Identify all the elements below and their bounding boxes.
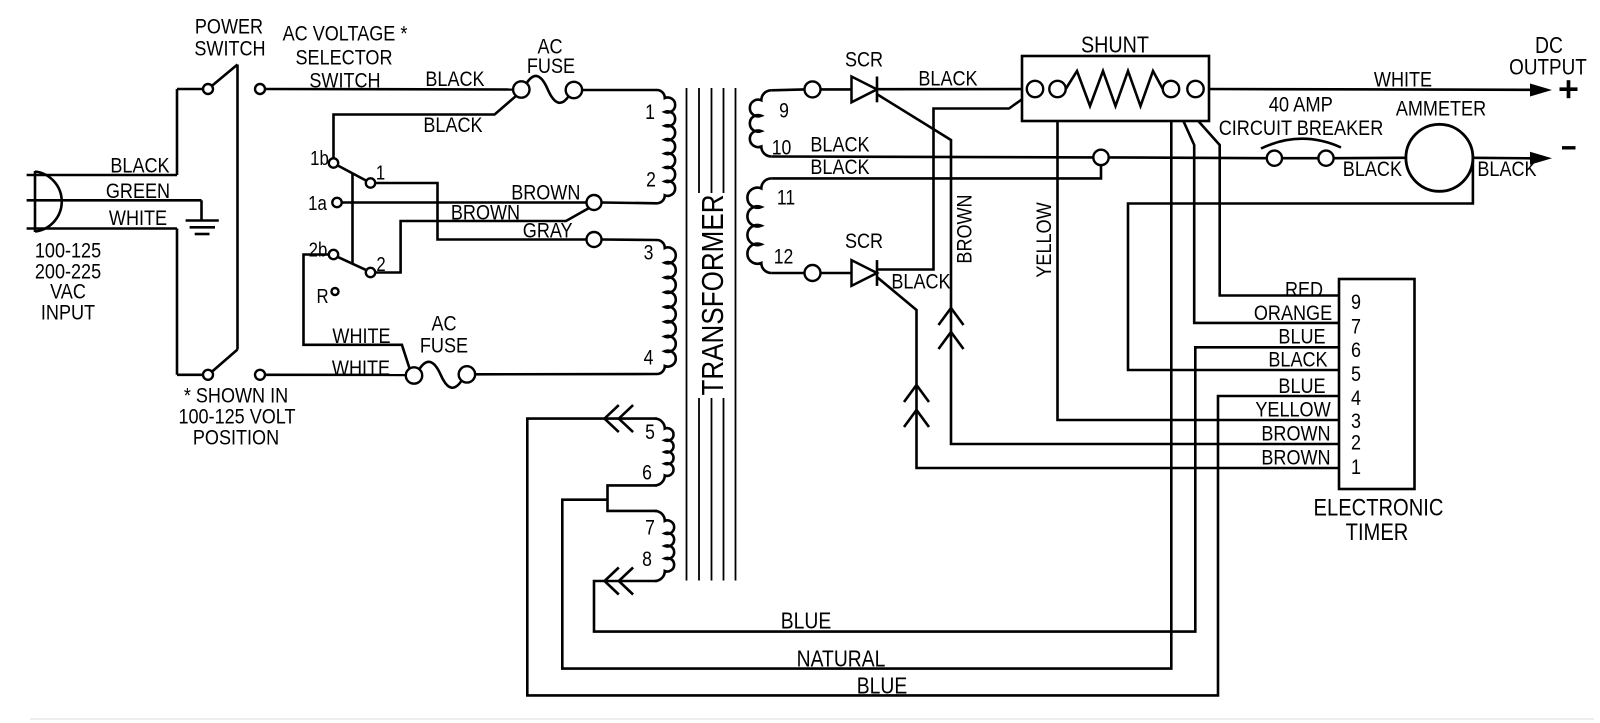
svg-text:6: 6 [1351,338,1361,362]
svg-text:WHITE: WHITE [332,356,390,380]
svg-text:POSITION: POSITION [193,426,279,450]
svg-text:ELECTRONIC: ELECTRONIC [1314,495,1444,522]
svg-text:POWER: POWER [195,15,263,39]
svg-text:40 AMP: 40 AMP [1269,93,1333,117]
svg-text:AMMETER: AMMETER [1396,97,1486,121]
svg-text:TRANSFORMER: TRANSFORMER [695,194,730,395]
svg-text:BROWN: BROWN [1261,422,1330,446]
svg-text:BLACK: BLACK [110,154,170,178]
svg-text:BROWN: BROWN [1261,446,1330,470]
svg-text:WHITE: WHITE [332,324,390,348]
svg-text:SCR: SCR [845,229,883,253]
svg-text:BLUE: BLUE [781,608,832,634]
svg-text:GREEN: GREEN [106,179,170,203]
svg-text:12: 12 [774,246,794,269]
svg-text:OUTPUT: OUTPUT [1509,55,1587,80]
svg-text:BLACK: BLACK [810,155,870,179]
svg-text:R: R [316,286,328,308]
svg-text:SWITCH: SWITCH [309,69,380,93]
svg-text:AC VOLTAGE *: AC VOLTAGE * [283,22,408,46]
svg-text:RED: RED [1285,278,1323,302]
svg-text:1: 1 [1351,455,1361,479]
svg-text:SWITCH: SWITCH [194,37,265,61]
svg-text:BLUE: BLUE [857,673,908,699]
svg-text:ORANGE: ORANGE [1254,301,1332,325]
svg-text:5: 5 [1351,362,1361,386]
svg-text:BROWN: BROWN [511,181,580,205]
svg-text:FUSE: FUSE [420,334,468,358]
svg-text:YELLOW: YELLOW [1032,202,1056,278]
svg-text:11: 11 [777,187,795,210]
svg-text:2b: 2b [309,240,328,262]
svg-text:2: 2 [376,254,385,276]
svg-text:WHITE: WHITE [1374,68,1432,92]
svg-text:SCR: SCR [845,48,883,72]
svg-text:9: 9 [1351,290,1361,314]
svg-text:BROWN: BROWN [953,194,977,263]
svg-text:AC: AC [431,312,456,336]
svg-text:10: 10 [772,137,792,160]
svg-text:BROWN: BROWN [451,201,520,225]
svg-text:BLACK: BLACK [1477,157,1537,181]
svg-text:BLACK: BLACK [423,113,483,137]
svg-text:WHITE: WHITE [109,206,167,230]
svg-text:2: 2 [646,169,656,192]
svg-text:4: 4 [644,347,654,370]
svg-text:BLACK: BLACK [425,67,485,91]
svg-text:GRAY: GRAY [523,219,573,243]
svg-text:SELECTOR: SELECTOR [296,46,393,70]
svg-text:8: 8 [642,548,652,571]
svg-text:5: 5 [645,421,655,444]
svg-text:BLACK: BLACK [918,67,978,91]
svg-text:TIMER: TIMER [1346,519,1409,546]
svg-text:SHUNT: SHUNT [1081,31,1149,57]
svg-text:BLACK: BLACK [1343,157,1403,181]
svg-text:BLACK: BLACK [891,270,951,294]
svg-text:BLACK: BLACK [1268,348,1328,372]
svg-text:4: 4 [1351,386,1361,410]
svg-text:1a: 1a [308,193,327,215]
svg-text:BLUE: BLUE [1278,374,1325,398]
svg-text:1: 1 [645,101,655,124]
svg-text:1: 1 [376,163,385,185]
svg-text:6: 6 [642,462,652,485]
svg-text:INPUT: INPUT [41,301,95,325]
svg-text:7: 7 [1351,315,1361,339]
svg-text:FUSE: FUSE [527,54,575,78]
svg-text:2: 2 [1351,430,1361,454]
svg-text:NATURAL: NATURAL [797,646,886,672]
svg-text:CIRCUIT BREAKER: CIRCUIT BREAKER [1219,116,1384,140]
svg-text:3: 3 [644,242,654,265]
svg-text:9: 9 [779,100,789,123]
svg-text:YELLOW: YELLOW [1255,398,1331,422]
svg-text:1b: 1b [310,148,329,170]
svg-text:BLACK: BLACK [810,133,870,157]
svg-text:BLUE: BLUE [1278,325,1325,349]
svg-text:7: 7 [645,517,655,540]
